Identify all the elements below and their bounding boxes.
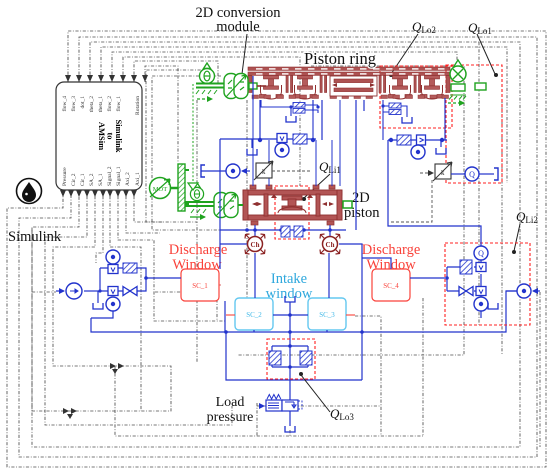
svg-text:Load: Load (216, 395, 245, 410)
svg-text:theta_2: theta_2 (89, 96, 95, 112)
svg-text:Cir_1: Cir_1 (80, 173, 86, 186)
svg-text:Piston ring: Piston ring (304, 49, 376, 68)
svg-text:Discharge: Discharge (169, 242, 228, 258)
svg-text:module: module (216, 19, 260, 35)
svg-text:dot_1: dot_1 (80, 96, 86, 109)
svg-text:flow_2: flow_2 (106, 96, 113, 112)
svg-text:Signal_2: Signal_2 (107, 166, 113, 186)
svg-text:pressure: pressure (207, 410, 254, 425)
svg-text:Cir_2: Cir_2 (71, 173, 77, 186)
svg-text:Discharge: Discharge (362, 242, 421, 258)
svg-text:SA_2: SA_2 (89, 173, 95, 186)
svg-text:SC_1: SC_1 (192, 282, 208, 290)
svg-text:Signal_1: Signal_1 (116, 166, 122, 186)
svg-text:flow_3: flow_3 (70, 96, 77, 112)
svg-text:SC_4: SC_4 (383, 282, 399, 290)
svg-text:Pressure: Pressure (62, 167, 68, 186)
svg-text:flow_1: flow_1 (115, 96, 122, 112)
svg-text:theta_1: theta_1 (98, 96, 104, 112)
svg-text:SC_2: SC_2 (246, 311, 262, 319)
svg-text:Rotation: Rotation (135, 96, 141, 115)
svg-text:SA_1: SA_1 (98, 173, 104, 186)
svg-text:2D: 2D (352, 190, 370, 206)
svg-text:Simulink: Simulink (8, 229, 62, 245)
svg-text:Axi_1: Axi_1 (135, 172, 141, 186)
svg-text:flow_4: flow_4 (61, 96, 68, 112)
svg-text:SC_3: SC_3 (319, 311, 335, 319)
svg-text:Axi_2: Axi_2 (125, 172, 131, 186)
svg-text:Intake: Intake (271, 271, 307, 287)
svg-text:AMSim: AMSim (97, 122, 107, 150)
